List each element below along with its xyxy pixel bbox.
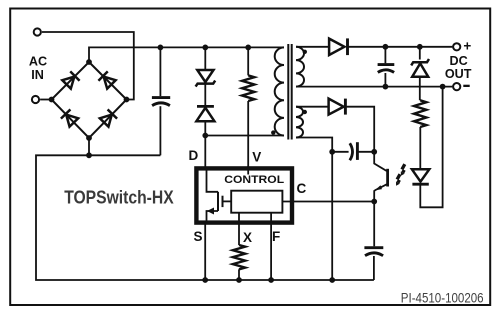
capacitor bulk C1 plates: [152, 96, 170, 99]
wire bulk cap bottom lead: [159, 106, 161, 155]
svg-text:PI-4510-100206: PI-4510-100206: [401, 290, 484, 306]
bias polarity dot: [303, 110, 307, 114]
wire AC bottom to bridge left vertex: [40, 99, 51, 101]
wire output return rail: [296, 86, 452, 88]
TOPSwitch IC U1 body: [196, 168, 292, 222]
secondary polarity dot: [303, 50, 307, 54]
wire bias diode to collector node: [345, 107, 374, 152]
transformer core: [287, 44, 289, 140]
optocoupler phototransistor Q1: [374, 152, 387, 171]
wire output cap top lead: [384, 47, 386, 64]
DC+ terminal: [453, 43, 460, 50]
wire bulk cap top lead: [159, 47, 161, 96]
output diode D6: [329, 39, 344, 55]
transformer secondary winding: [296, 47, 304, 87]
optocoupler LED: [412, 169, 429, 181]
wire bias return down to source rail (crosses C line): [331, 152, 333, 280]
AC input terminal top: [34, 28, 41, 35]
svg-text:X: X: [243, 230, 252, 245]
wire C cap bottom lead: [373, 256, 375, 280]
svg-text:S: S: [194, 229, 203, 244]
wire C pin line: [282, 201, 374, 203]
junction dots: [86, 59, 92, 65]
svg-text:C: C: [297, 181, 307, 196]
wire D node to primary bottom: [205, 135, 284, 137]
wire zener to resistor (crosses return rail): [419, 77, 421, 101]
bridge diode D3 (bottom-left): [61, 109, 79, 127]
blocking diode D5 (cathode up): [197, 105, 214, 108]
internal stub F pin: [270, 213, 272, 223]
capacitor C4 control pin plates: [364, 246, 383, 249]
wire output rail to DC+: [348, 46, 453, 48]
wire AC top to bridge right vertex: [42, 32, 134, 100]
svg-text:OUT: OUT: [445, 67, 472, 81]
primary polarity dot: [271, 130, 275, 134]
svg-text:CONTROL: CONTROL: [224, 174, 284, 186]
svg-text:F: F: [272, 229, 280, 244]
svg-text:IN: IN: [31, 68, 44, 82]
zener VR1 clamp (anode up): [197, 70, 213, 82]
svg-text:AC: AC: [29, 55, 47, 69]
bridge diode D2 (right-top): [98, 71, 116, 89]
wire zener top lead: [419, 47, 421, 60]
wire X pin: [238, 223, 240, 245]
transformer T1 primary winding: [275, 47, 284, 135]
wire LED loop back to return rail: [420, 87, 442, 208]
bridge diode D1 (left-top): [62, 71, 80, 89]
internal stub X pin: [238, 213, 240, 223]
resistor R1 line sense: [242, 75, 254, 101]
wire clamp top lead: [204, 47, 206, 69]
zener VR2 feedback (cathode up bent bar): [411, 59, 429, 65]
mosfet internal: [207, 170, 219, 192]
bridge diode D4 (bottom-right): [99, 109, 117, 127]
internal stub V pin: [247, 166, 249, 175]
svg-text:TOPSwitch-HX: TOPSwitch-HX: [64, 187, 174, 207]
capacitor C3 bias plates: [332, 151, 348, 153]
wire bias winding bottom return: [296, 138, 332, 152]
label minus: [463, 85, 469, 87]
wire clamp bottom to D node, D pin: [204, 122, 206, 170]
wire resistor to LED: [419, 127, 421, 169]
resistor R3 external current limit: [233, 245, 245, 269]
wire F pin: [270, 223, 272, 280]
svg-text:V: V: [252, 150, 261, 165]
wire bridge top vertex to primary rail: [89, 47, 284, 62]
transformer bias winding: [296, 107, 303, 138]
wire V pin: [247, 101, 249, 170]
wire bias winding top to diode: [296, 106, 329, 108]
AC input terminal bottom: [32, 96, 39, 103]
wire negative bus horizontal: [36, 155, 374, 280]
capacitor C2 output plates: [378, 63, 395, 66]
optocoupler light arrow 2: [396, 174, 400, 186]
bias diode D7: [329, 99, 344, 115]
wire S pin: [204, 223, 206, 280]
wire C cap top lead: [373, 202, 375, 247]
wire secondary top to output diode: [296, 46, 329, 48]
control block: [231, 191, 282, 213]
svg-text:D: D: [189, 148, 199, 163]
wire output cap bottom lead: [384, 73, 386, 87]
wire V resistor top lead: [247, 47, 249, 75]
resistor R2 feedback: [414, 100, 426, 127]
optocoupler light arrow 1: [401, 164, 405, 176]
DC- terminal: [453, 83, 460, 90]
wire bridge bottom vertex down: [88, 138, 90, 155]
wire clamp middle: [204, 85, 206, 106]
diode bridge diamond wires: [52, 62, 127, 138]
svg-text:+: +: [463, 39, 471, 54]
